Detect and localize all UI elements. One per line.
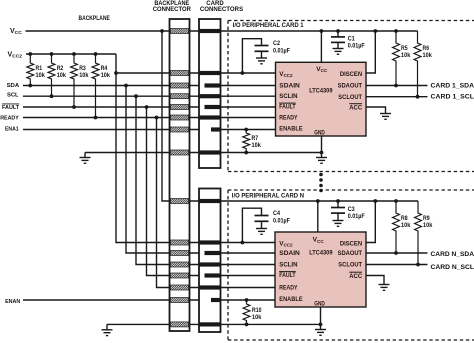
svg-text:10k: 10k bbox=[79, 72, 89, 79]
svg-text:R5: R5 bbox=[401, 45, 408, 52]
svg-text:SCL: SCL bbox=[7, 92, 19, 98]
svg-text:CONNECTORS: CONNECTORS bbox=[200, 7, 243, 13]
svg-text:ENAN: ENAN bbox=[5, 299, 20, 305]
svg-text:10k: 10k bbox=[423, 222, 433, 229]
svg-text:ENA1: ENA1 bbox=[5, 126, 19, 132]
svg-text:FAULT: FAULT bbox=[2, 105, 19, 111]
svg-text:R3: R3 bbox=[79, 65, 86, 72]
svg-text:R2: R2 bbox=[57, 65, 64, 72]
svg-text:R10: R10 bbox=[252, 307, 262, 314]
svg-text:10k: 10k bbox=[101, 72, 111, 79]
svg-text:SCLIN: SCLIN bbox=[279, 93, 298, 100]
svg-text:C3: C3 bbox=[348, 206, 356, 213]
svg-text:SDAOUT: SDAOUT bbox=[338, 250, 363, 257]
svg-text:DISCEN: DISCEN bbox=[340, 241, 363, 248]
svg-text:SCLIN: SCLIN bbox=[279, 262, 298, 269]
svg-text:FAULT: FAULT bbox=[279, 104, 295, 111]
svg-text:LTC4309: LTC4309 bbox=[309, 88, 333, 95]
svg-text:CARD 1_SDA: CARD 1_SDA bbox=[431, 83, 474, 90]
svg-text:C4: C4 bbox=[273, 210, 281, 217]
svg-text:ACC: ACC bbox=[349, 273, 362, 280]
svg-text:READY: READY bbox=[279, 284, 298, 291]
svg-text:SDAIN: SDAIN bbox=[279, 250, 300, 257]
svg-text:0.01µF: 0.01µF bbox=[273, 47, 290, 54]
svg-text:10k: 10k bbox=[401, 222, 411, 229]
svg-text:ACC: ACC bbox=[349, 104, 362, 111]
svg-text:R1: R1 bbox=[36, 65, 43, 72]
svg-text:READY: READY bbox=[279, 114, 298, 121]
svg-text:R6: R6 bbox=[423, 45, 430, 52]
svg-text:ENABLE: ENABLE bbox=[279, 125, 302, 132]
svg-text:SDAIN: SDAIN bbox=[279, 82, 300, 89]
svg-text:SCLOUT: SCLOUT bbox=[338, 262, 362, 269]
svg-text:I/O PERIPHERAL CARD N: I/O PERIPHERAL CARD N bbox=[232, 192, 304, 199]
svg-text:CARD N_SCL: CARD N_SCL bbox=[431, 264, 474, 271]
svg-text:DISCEN: DISCEN bbox=[340, 71, 363, 78]
svg-text:10k: 10k bbox=[252, 142, 262, 149]
svg-text:SDA: SDA bbox=[7, 83, 20, 89]
svg-text:10k: 10k bbox=[252, 314, 262, 321]
svg-text:R9: R9 bbox=[423, 215, 430, 222]
svg-text:FAULT: FAULT bbox=[279, 272, 295, 279]
svg-text:ENABLE: ENABLE bbox=[279, 296, 302, 303]
svg-text:LTC4309: LTC4309 bbox=[309, 250, 333, 257]
svg-text:READY: READY bbox=[0, 115, 19, 121]
svg-text:GND: GND bbox=[314, 300, 325, 307]
svg-text:GND: GND bbox=[314, 130, 325, 137]
svg-text:BACKPLANE: BACKPLANE bbox=[79, 15, 111, 22]
svg-text:C2: C2 bbox=[273, 40, 281, 47]
svg-text:10k: 10k bbox=[57, 72, 67, 79]
svg-text:SDAOUT: SDAOUT bbox=[338, 82, 363, 89]
svg-text:0.01µF: 0.01µF bbox=[348, 213, 365, 220]
svg-text:0.01µF: 0.01µF bbox=[273, 218, 290, 225]
svg-text:0.01µF: 0.01µF bbox=[348, 43, 365, 50]
svg-text:R7: R7 bbox=[252, 135, 259, 142]
svg-text:R8: R8 bbox=[401, 215, 408, 222]
svg-text:10k: 10k bbox=[36, 72, 46, 79]
svg-text:10k: 10k bbox=[401, 52, 411, 59]
svg-text:CARD 1_SCL: CARD 1_SCL bbox=[431, 94, 474, 101]
svg-text:CONNECTOR: CONNECTOR bbox=[153, 7, 192, 13]
svg-text:I/O PERIPHERAL CARD 1: I/O PERIPHERAL CARD 1 bbox=[233, 22, 304, 29]
svg-text:10k: 10k bbox=[423, 52, 433, 59]
svg-text:C1: C1 bbox=[348, 36, 356, 43]
svg-text:CARD N_SDA: CARD N_SDA bbox=[431, 251, 474, 258]
svg-text:R4: R4 bbox=[101, 65, 108, 72]
svg-text:SCLOUT: SCLOUT bbox=[338, 94, 362, 101]
